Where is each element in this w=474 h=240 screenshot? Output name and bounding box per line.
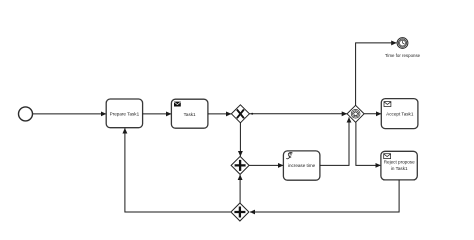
junction nub at G1 output bbox=[251, 113, 253, 115]
task increase time (script) bbox=[283, 151, 320, 180]
timer intermediate event bbox=[385, 38, 421, 58]
wire Task1 to gateway G1 bbox=[208, 113, 231, 115]
wire G3 back up to Prepare Task1 bbox=[125, 128, 231, 212]
wire increase time up into G4 bbox=[320, 117, 349, 165]
svg-text:Task1: Task1 bbox=[184, 112, 196, 117]
wire G1 to event gateway G4 bbox=[249, 113, 347, 115]
wire G2 to increase time bbox=[249, 164, 283, 166]
gateway G2 parallel bbox=[231, 156, 249, 174]
svg-text:Prepare Task1: Prepare Task1 bbox=[110, 112, 140, 117]
svg-text:in Task1: in Task1 bbox=[391, 166, 408, 171]
task Accept Task1 (receive) bbox=[381, 99, 418, 129]
svg-text:Time for response: Time for response bbox=[385, 53, 421, 58]
task Prepare Task1 bbox=[106, 99, 142, 128]
start event bbox=[19, 107, 33, 121]
svg-text:Accept Task1: Accept Task1 bbox=[386, 112, 414, 117]
wire start to Prepare Task1 bbox=[33, 113, 106, 115]
wire G4 up to timer bbox=[356, 43, 397, 105]
wire G3 up to G2 bbox=[239, 175, 241, 204]
gateway G1 exclusive XOR bbox=[231, 105, 249, 123]
svg-text:increase time: increase time bbox=[288, 163, 316, 168]
task Reject propose in Task1 (receive) bbox=[381, 151, 417, 180]
gateway G3 parallel bbox=[231, 203, 249, 221]
wire G4 down to Reject task bbox=[356, 122, 381, 165]
wire G1 down to gateway G2 bbox=[239, 123, 241, 156]
task Task1 (send) bbox=[171, 99, 208, 128]
wire Reject task down to G3 bbox=[250, 180, 399, 212]
wire Prepare Task1 to Task1 bbox=[143, 113, 172, 115]
svg-text:Reject propose: Reject propose bbox=[384, 160, 415, 165]
event gateway G4 bbox=[347, 105, 364, 122]
wire G4 to Accept Task1 bbox=[364, 113, 381, 115]
